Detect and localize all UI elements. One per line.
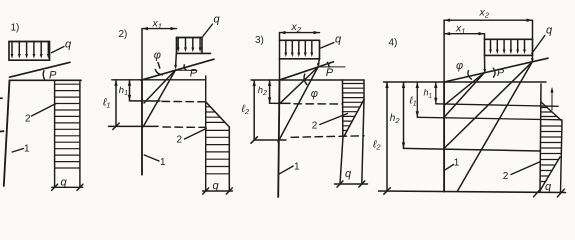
phi leader tick (fig2) bbox=[158, 63, 160, 69]
phi angle arc (fig4) bbox=[468, 71, 472, 80]
x2 extension line (fig4) bbox=[532, 20, 534, 39]
phi angle arc (fig3) bbox=[304, 74, 307, 84]
dimension x1 arrowheads (fig2) bbox=[142, 27, 177, 30]
l1 arrowheads (fig4) bbox=[416, 82, 419, 117]
pressure diagram right edge (fig2) bbox=[228, 127, 230, 191]
small vertical tick above diagram (fig4) bbox=[551, 89, 553, 111]
wall 1 (fig4) bbox=[443, 82, 445, 192]
svg-text:ℓ1: ℓ1 bbox=[102, 97, 111, 110]
h2 level line (fig4) bbox=[404, 148, 541, 151]
angle arc P (fig2) bbox=[184, 65, 186, 70]
dimension l1 line (fig4) bbox=[416, 82, 418, 117]
load arrows (fig2) bbox=[178, 38, 200, 49]
dimension h1 line (fig2) bbox=[129, 80, 131, 101]
leader to wall (fig1) bbox=[12, 149, 23, 153]
left extension line (fig4) bbox=[443, 20, 445, 82]
fan line vertex1 to wall h1 (fig4) bbox=[444, 72, 485, 105]
dimension h2 line (fig3) bbox=[269, 80, 271, 103]
leader to load (fig2) bbox=[203, 24, 213, 37]
dimension x1 line (fig4) bbox=[444, 33, 484, 35]
svg-text:q: q bbox=[546, 25, 553, 37]
angle arc P (fig1) bbox=[43, 71, 44, 80]
pressure diagram left edge (fig4) bbox=[540, 84, 541, 192]
bottom line l2 level (fig4) bbox=[379, 191, 566, 193]
svg-text:P: P bbox=[326, 67, 334, 79]
phi angle arc (fig2) bbox=[155, 70, 162, 75]
dimension l2 line (fig3) bbox=[253, 80, 255, 140]
leader to diagram (fig2) bbox=[185, 129, 207, 140]
pressure diagram hatching (fig1) bbox=[55, 84, 80, 168]
pressure diagram upper hypotenuse (fig4) bbox=[541, 102, 562, 121]
pressure diagram left edge (fig2) bbox=[205, 76, 207, 191]
dimension l2 line (fig4) bbox=[386, 82, 388, 191]
dimension x2 arrowheads (fig3) bbox=[280, 31, 320, 34]
wall top level line (fig3) bbox=[251, 79, 364, 81]
extension arrowhead at ground (fig3) bbox=[317, 63, 320, 68]
load arrowheads (fig4) bbox=[489, 50, 526, 55]
svg-text:1: 1 bbox=[454, 158, 460, 169]
distributed load q (fig2) outline bbox=[177, 38, 211, 54]
svg-text:2: 2 bbox=[177, 135, 183, 146]
svg-text:1: 1 bbox=[24, 144, 30, 155]
load arrowheads (fig2) bbox=[177, 48, 202, 53]
l1 level line solid (fig2) bbox=[109, 125, 159, 127]
svg-text:x1: x1 bbox=[152, 18, 162, 31]
pressure diagram hypotenuse (fig3) bbox=[344, 100, 364, 137]
extension arrowhead at ground (fig2) bbox=[174, 65, 177, 70]
load arrows (fig4) bbox=[491, 39, 525, 50]
svg-text:x2: x2 bbox=[291, 21, 302, 34]
extension to ground with arrow vertex2 (fig4) bbox=[531, 55, 533, 59]
svg-text:φ: φ bbox=[311, 88, 318, 100]
svg-text:3): 3) bbox=[255, 35, 264, 46]
distributed load q (fig4) outline bbox=[485, 39, 533, 55]
extension to ground with arrow (fig4) bbox=[484, 55, 486, 70]
dimension ticks (fig3) bbox=[337, 181, 343, 187]
svg-text:ℓ1: ℓ1 bbox=[409, 96, 417, 108]
leader to wall (fig3) bbox=[279, 166, 294, 174]
svg-text:ℓ2: ℓ2 bbox=[372, 139, 381, 152]
pressure diagram hypotenuse (fig2) bbox=[206, 102, 230, 127]
wall 1 (fig1) bbox=[4, 80, 10, 186]
dimension l1 line (fig2) bbox=[115, 80, 117, 127]
svg-text:h2: h2 bbox=[390, 113, 401, 125]
h1 level line solid (fig2) bbox=[130, 100, 161, 102]
leader to diagram (fig4) bbox=[511, 162, 540, 175]
l2 level line dashed (fig3) bbox=[291, 136, 364, 138]
svg-text:1: 1 bbox=[294, 162, 300, 173]
fan line vertex2 to wall h2 (fig4) bbox=[444, 62, 532, 149]
dimension ticks (fig1) bbox=[52, 184, 58, 190]
svg-text:q: q bbox=[65, 39, 72, 51]
pressure diagram hatching (fig4) bbox=[540, 108, 562, 182]
horizontal reference at vertex (fig3) bbox=[318, 66, 345, 68]
horizontal reference at vertex (fig2) bbox=[176, 69, 197, 71]
l1 level line dashed (fig2) bbox=[163, 126, 206, 128]
pressure diagram right edge upper (fig3) bbox=[363, 80, 365, 100]
wall 1 (fig3) bbox=[278, 80, 279, 197]
ground slope line (fig2) bbox=[141, 59, 214, 80]
svg-text:q: q bbox=[61, 177, 68, 189]
l1 bottom oblique tick (fig2) bbox=[113, 123, 119, 129]
pressure diagram 2 (fig1) edges bbox=[55, 80, 80, 187]
wall 1 (fig2) bbox=[141, 80, 143, 175]
fan line to wall h2 (fig3) bbox=[280, 67, 318, 103]
dimension x1 line (fig2) bbox=[142, 28, 177, 30]
distributed load q (fig3) outline bbox=[280, 40, 320, 59]
load edge extension to ground with arrow (fig2) bbox=[175, 53, 178, 66]
svg-text:φ: φ bbox=[456, 60, 463, 72]
h1 arrowheads (fig4) bbox=[434, 82, 437, 104]
q width dimension line (fig2) bbox=[203, 190, 233, 192]
load edge extension to ground with arrow (fig3) bbox=[318, 59, 319, 65]
svg-text:q: q bbox=[214, 14, 221, 26]
extension arrowhead at ground vertex2 (fig4) bbox=[531, 58, 534, 63]
leader to wall (fig2) bbox=[144, 155, 159, 161]
l2 top arrowhead (fig4) bbox=[385, 82, 388, 88]
fan line to wall l1 (fig2) bbox=[143, 70, 175, 127]
l2 level line solid (fig3) bbox=[254, 139, 286, 141]
svg-text:q: q bbox=[213, 180, 220, 192]
wall top level line (fig2) bbox=[112, 79, 206, 81]
fan line vertex2 to bottom l2 (fig4) bbox=[458, 62, 533, 191]
h2 arrowheads (fig3) bbox=[268, 80, 271, 103]
q width dimension line (fig1) bbox=[52, 186, 83, 188]
svg-text:2: 2 bbox=[312, 121, 318, 132]
x1 left extension line (fig2) bbox=[141, 29, 143, 80]
svg-text:P: P bbox=[497, 67, 504, 79]
dimension x2 arrowheads (fig4) bbox=[444, 19, 532, 22]
angle arc P (fig3) bbox=[327, 62, 329, 67]
l1 top arrowhead (fig2) bbox=[114, 80, 117, 86]
q width dimension line (fig3) bbox=[335, 183, 368, 185]
svg-text:h1: h1 bbox=[424, 88, 433, 100]
fan line vertex1 to wall l1 (fig4) bbox=[444, 72, 485, 117]
load right edge (fig4) bbox=[532, 39, 534, 55]
ground slope line (fig4) bbox=[444, 58, 548, 82]
svg-text:h2: h2 bbox=[258, 85, 267, 97]
leader to diagram (fig1) bbox=[32, 104, 57, 117]
left extension to q dimension (fig3) bbox=[340, 137, 343, 185]
dimension h1 line (fig4) bbox=[435, 82, 437, 104]
svg-text:q: q bbox=[545, 181, 552, 193]
svg-text:1): 1) bbox=[11, 23, 20, 34]
ground slope line (fig3) bbox=[280, 62, 334, 80]
fan line to wall top (fig3) bbox=[280, 67, 318, 80]
svg-text:q: q bbox=[345, 168, 352, 180]
svg-text:4): 4) bbox=[389, 38, 398, 49]
svg-text:φ: φ bbox=[154, 50, 161, 62]
h2 level line solid (fig3) bbox=[270, 102, 290, 104]
dimension x2 line (fig4) bbox=[444, 19, 532, 21]
wall top line (fig1) bbox=[10, 79, 82, 81]
ground slope line (fig1) bbox=[10, 62, 71, 77]
svg-text:h1: h1 bbox=[119, 85, 128, 97]
distributed load q (fig1) outline bbox=[9, 42, 50, 61]
dimension ticks q (fig4) bbox=[534, 189, 541, 197]
h2 level line dashed (fig3) bbox=[294, 103, 343, 105]
x1 extension through load (fig4) bbox=[484, 34, 486, 40]
pressure diagram lower hypotenuse (fig4) bbox=[540, 157, 560, 191]
l1 level line (fig4) bbox=[417, 117, 562, 120]
svg-text:2: 2 bbox=[25, 114, 31, 125]
wall and extension line (fig3) bbox=[279, 33, 281, 80]
leader to load (fig3) bbox=[321, 43, 334, 49]
load left edge (fig4) bbox=[484, 39, 486, 55]
h1 arrowheads (fig2) bbox=[128, 80, 131, 101]
h1 level line dashed (fig2) bbox=[162, 100, 206, 102]
fan line to wall l2 (fig3) bbox=[278, 67, 318, 142]
load arrows (fig1) bbox=[12, 42, 48, 56]
svg-text:x1: x1 bbox=[455, 23, 465, 36]
pressure diagram hatching (fig2) bbox=[206, 107, 230, 174]
small arrowhead on tick (fig4) bbox=[550, 87, 553, 93]
l2 bottom oblique tick (fig3) bbox=[251, 137, 257, 143]
dimension ticks (fig2) bbox=[203, 188, 209, 194]
scan artifact dash left edge bbox=[0, 130, 4, 132]
svg-text:2): 2) bbox=[119, 29, 128, 40]
leader to wall (fig4) bbox=[445, 165, 453, 170]
svg-text:ℓ2: ℓ2 bbox=[241, 103, 250, 116]
dimension x1 arrowheads (fig4) bbox=[444, 32, 484, 35]
extension arrowhead at ground vertex1 (fig4) bbox=[483, 69, 486, 74]
svg-text:P: P bbox=[190, 68, 198, 80]
leader to diagram (fig3) bbox=[320, 114, 348, 125]
load arrows (fig3) bbox=[286, 40, 312, 53]
l2 bottom oblique tick (fig4) bbox=[384, 188, 390, 194]
wall top level line (fig4) bbox=[384, 81, 547, 83]
pressure diagram hatching (fig3) bbox=[343, 84, 365, 131]
load arrowheads (fig1) bbox=[11, 54, 50, 59]
l2 top arrowhead (fig3) bbox=[253, 80, 256, 86]
dimension x2 line (fig3) bbox=[280, 32, 320, 34]
svg-text:x2: x2 bbox=[479, 7, 490, 20]
fan line at phi to wall h1 (fig2) bbox=[144, 70, 176, 103]
svg-text:2: 2 bbox=[503, 171, 509, 182]
h2 arrowheads (fig4) bbox=[402, 82, 405, 148]
svg-text:1: 1 bbox=[160, 157, 166, 168]
load arrowheads (fig3) bbox=[284, 53, 313, 58]
h1 level line (fig4) bbox=[436, 104, 558, 107]
pressure diagram right edge (fig4) bbox=[561, 121, 563, 193]
leader to load (fig4) bbox=[532, 36, 545, 54]
leader to load (fig1) bbox=[52, 47, 65, 53]
right edge extension lower (fig3) bbox=[362, 100, 364, 185]
angle arc P (fig4) bbox=[493, 68, 495, 77]
dimension h2 line (fig4) bbox=[403, 82, 405, 148]
pressure diagram left edge (fig3) bbox=[342, 80, 344, 136]
svg-text:q: q bbox=[335, 34, 342, 46]
scan artifact dash left edge upper bbox=[0, 97, 2, 99]
